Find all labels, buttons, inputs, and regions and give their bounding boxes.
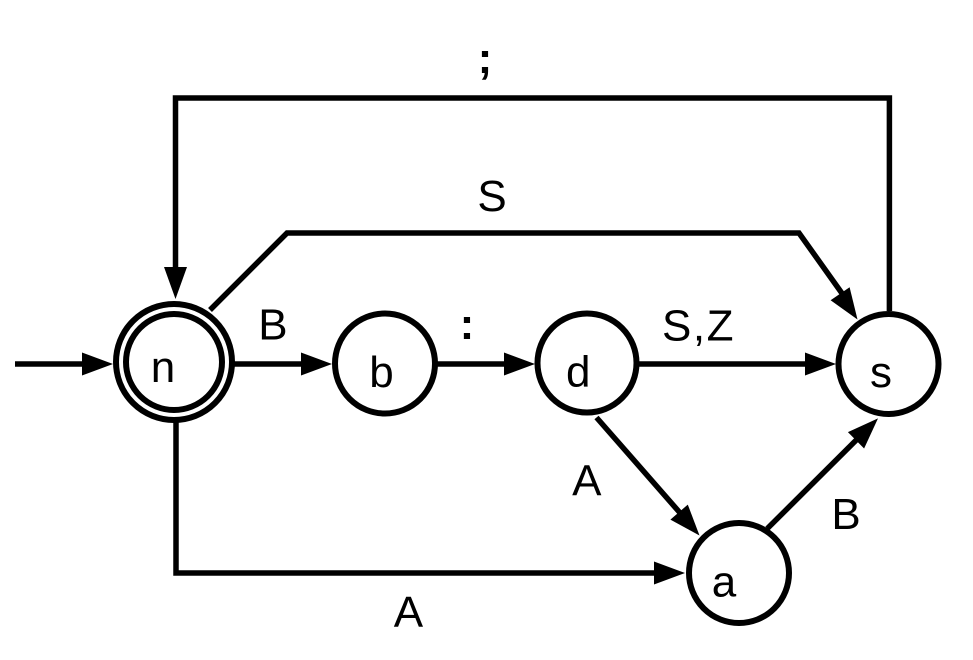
wire d to s labeled S,Z: [637, 302, 836, 376]
svg-text:A: A: [572, 457, 602, 506]
svg-text:a: a: [712, 558, 737, 607]
wire start arrow into n: [15, 353, 113, 376]
svg-text:S: S: [477, 172, 506, 221]
node b: [335, 314, 435, 414]
svg-text:A: A: [394, 588, 424, 637]
wire d to a labeled A (diagonal): [572, 418, 699, 536]
svg-text:d: d: [566, 348, 590, 397]
wire n to a labeled A (bottom polyline): [176, 420, 685, 637]
svg-text:S,Z: S,Z: [662, 302, 735, 351]
svg-text:B: B: [258, 301, 287, 350]
node d: [538, 314, 637, 413]
wire s to n labeled ; (top polyline): [164, 34, 889, 311]
node a: [689, 523, 789, 623]
wire n to b labeled B: [233, 301, 332, 376]
svg-text:B: B: [831, 490, 860, 539]
svg-text:b: b: [369, 348, 393, 397]
svg-text:;: ;: [478, 34, 493, 83]
wire b to d labeled :: [436, 300, 535, 376]
svg-text:n: n: [151, 343, 175, 392]
node n (accepting state, double circle): [116, 304, 232, 420]
node s: [839, 314, 939, 414]
wire a to s labeled B (diagonal): [767, 418, 878, 538]
svg-text::: :: [460, 300, 475, 349]
wire n to s labeled S (upper polyline): [210, 172, 858, 320]
svg-text:s: s: [870, 348, 892, 397]
